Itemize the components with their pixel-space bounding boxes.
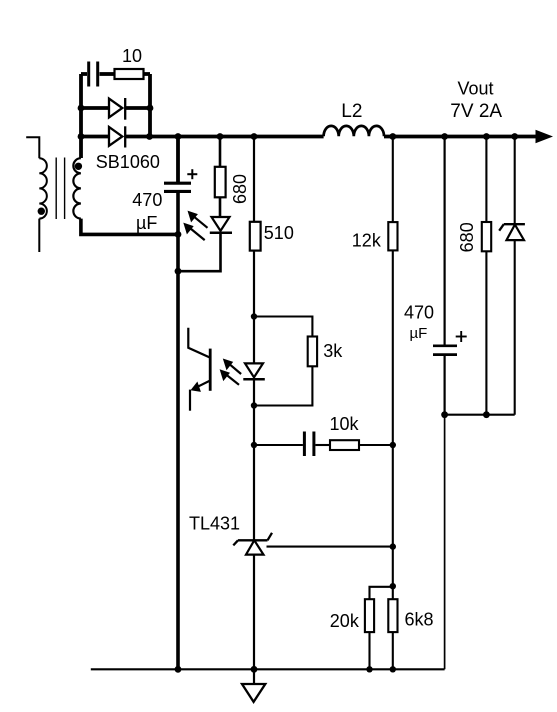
- svg-text:680: 680: [457, 222, 477, 252]
- node: rail @ zener D5: [511, 133, 518, 140]
- wire: 680 right branch top: [485, 137, 487, 223]
- wire: zener branch top: [514, 137, 516, 225]
- wire: cap to 10k: [315, 444, 330, 446]
- wire: 20k jog: [370, 587, 393, 599]
- wire: 510 to opto LED: [253, 251, 255, 364]
- svg-text:SB1060: SB1060: [96, 152, 160, 172]
- node: diode row1 right junction: [147, 105, 154, 112]
- node: opto LED anode / 3k top: [251, 313, 257, 319]
- svg-text:20k: 20k: [330, 611, 360, 631]
- wire: 6k8 to bottom rail: [392, 632, 394, 669]
- node: secondary return @ C2 line: [175, 231, 182, 238]
- resistor R7 20k: [365, 599, 374, 632]
- svg-text:6k8: 6k8: [405, 610, 434, 630]
- svg-text:680: 680: [230, 174, 250, 204]
- svg-text:Vout: Vout: [458, 79, 494, 99]
- capacitor C4 (series with 10k): [304, 432, 314, 457]
- svg-text:7V 2A: 7V 2A: [450, 101, 502, 122]
- wire: 680 right bottom: [485, 251, 487, 414]
- svg-text:470: 470: [404, 303, 434, 323]
- LED D3 arrow 1: [188, 211, 208, 228]
- node: rail @ R6 12k: [389, 133, 396, 140]
- wire: ground-side vertical: [176, 191, 180, 669]
- wire: output cap branch: [444, 137, 446, 346]
- wire: diode row 1: [81, 106, 150, 110]
- wire: 510 branch: [253, 137, 255, 222]
- wire: secondary bottom return: [81, 219, 178, 235]
- wire: ground stub: [253, 669, 255, 684]
- phototransistor Q1 emitter arrow: [191, 382, 201, 392]
- inductor L2: [324, 126, 384, 136]
- label + (C5 polarity): [456, 331, 467, 342]
- node: 10k branch @ 254: [251, 442, 257, 448]
- node: TL431 ref @ 12k line: [390, 543, 396, 549]
- wire: zener bottom: [514, 240, 516, 415]
- wire: 3k parallel loop: [254, 317, 312, 406]
- svg-text:510: 510: [264, 223, 294, 243]
- wire: 680 branch top: [219, 137, 222, 167]
- wire: C5 bottom: [444, 355, 446, 415]
- phototransistor Q1 collector lead: [188, 328, 210, 358]
- resistor R1 10 (snubber): [115, 69, 144, 79]
- node: divider tap: [390, 583, 396, 589]
- phototransistor Q1 base bar: [209, 349, 212, 391]
- wire: snubber right vertical: [148, 74, 152, 137]
- wire: 12k down to divider: [392, 250, 394, 599]
- transformer T1 primary top lead: [26, 137, 39, 158]
- phototransistor Q1 emitter lead: [197, 381, 211, 388]
- LED D3 indicator: [210, 217, 232, 233]
- wire: right junction row: [445, 414, 515, 416]
- node: bottom rail @ 20k: [366, 666, 372, 672]
- ground: [242, 684, 265, 702]
- transformer T1 core: [56, 158, 64, 220]
- node: bottom rail @ main vertical: [175, 666, 182, 673]
- TL431 U1: [233, 533, 272, 555]
- resistor R5 10k: [330, 440, 359, 450]
- transformer T1 primary bottom lead: [38, 219, 40, 252]
- node: opto LED cathode / 3k bottom: [251, 402, 257, 408]
- node: rail @ secondary lead: [78, 133, 85, 140]
- wire: main output rail: [81, 135, 539, 139]
- transformer T1 secondary winding: [73, 158, 81, 218]
- wire: TL431 anode to bottom rail: [253, 555, 255, 670]
- wire: bottom rail: [91, 668, 445, 670]
- wire: 10k/cap row left: [254, 444, 303, 446]
- node: LED return junction: [175, 268, 182, 275]
- transformer T1 secondary polarity dot: [75, 163, 82, 170]
- resistor R8 6k8: [388, 599, 397, 632]
- svg-text:10: 10: [122, 46, 142, 66]
- svg-text:L2: L2: [341, 101, 362, 122]
- wire: opto LED down to TL431: [253, 379, 255, 540]
- svg-text:12k: 12k: [352, 230, 382, 250]
- node: bottom rail @ 6k8: [390, 666, 396, 672]
- wire: snubber top row: [81, 72, 150, 76]
- transformer T1 primary polarity dot: [38, 208, 45, 215]
- transformer T1 primary winding: [39, 158, 47, 218]
- resistor R2 680: [215, 167, 226, 198]
- phototransistor Q1 emitter vertical: [189, 390, 191, 411]
- node: junction row @ C5: [441, 411, 448, 418]
- LED D3 arrow 2: [183, 223, 204, 241]
- wire: 680 to LED: [219, 197, 222, 217]
- wire: snubber left vertical / secondary top lead: [79, 74, 83, 158]
- output arrow: [536, 130, 554, 143]
- node: rail @ R2 680: [217, 133, 224, 140]
- wire: C5 junction down to bottom rail: [444, 415, 446, 670]
- svg-text:470: 470: [132, 190, 162, 210]
- capacitor C2 470uF: [164, 183, 191, 191]
- svg-text:10k: 10k: [330, 414, 360, 434]
- diode D1 SB1060: [109, 98, 125, 120]
- svg-text:3k: 3k: [323, 341, 343, 361]
- wire: LED return: [178, 233, 221, 271]
- capacitor C5 470uF: [433, 346, 457, 355]
- node: rail @ R3 510: [251, 133, 258, 140]
- opto arrow 1: [223, 359, 241, 375]
- node: rail @ C2: [175, 133, 182, 140]
- wire: TL431 reference: [267, 546, 393, 548]
- wire: 10k to 12k line: [359, 444, 393, 446]
- wire: main vertical (rectified node down): [176, 137, 180, 184]
- svg-text:µF: µF: [136, 213, 157, 233]
- resistor R4 3k: [308, 337, 317, 367]
- node: rail @ C5: [441, 133, 448, 140]
- node: junction row @ 680: [483, 411, 490, 418]
- wire: 12k branch top: [392, 137, 394, 223]
- svg-text:µF: µF: [410, 325, 428, 342]
- node: rail @ snubber right: [146, 133, 153, 140]
- node: bottom rail @ TL431: [251, 666, 258, 673]
- diode D2 SB1060: [109, 126, 125, 147]
- wire: 20k to bottom rail: [368, 632, 370, 669]
- zener D5: [499, 224, 525, 240]
- opto arrow 2: [220, 369, 239, 385]
- resistor R3 510: [250, 222, 261, 251]
- opto LED D4: [243, 363, 264, 379]
- node: diode row1 left junction: [78, 105, 85, 112]
- node: rail @ R9 680: [483, 133, 490, 140]
- resistor R6 12k: [388, 222, 397, 250]
- node: 10k @ 12k line: [390, 442, 396, 448]
- resistor R9 680: [482, 222, 491, 251]
- capacitor C1 (snubber): [89, 62, 98, 87]
- svg-text:TL431: TL431: [189, 514, 240, 534]
- label + (C2 polarity): [187, 169, 197, 179]
